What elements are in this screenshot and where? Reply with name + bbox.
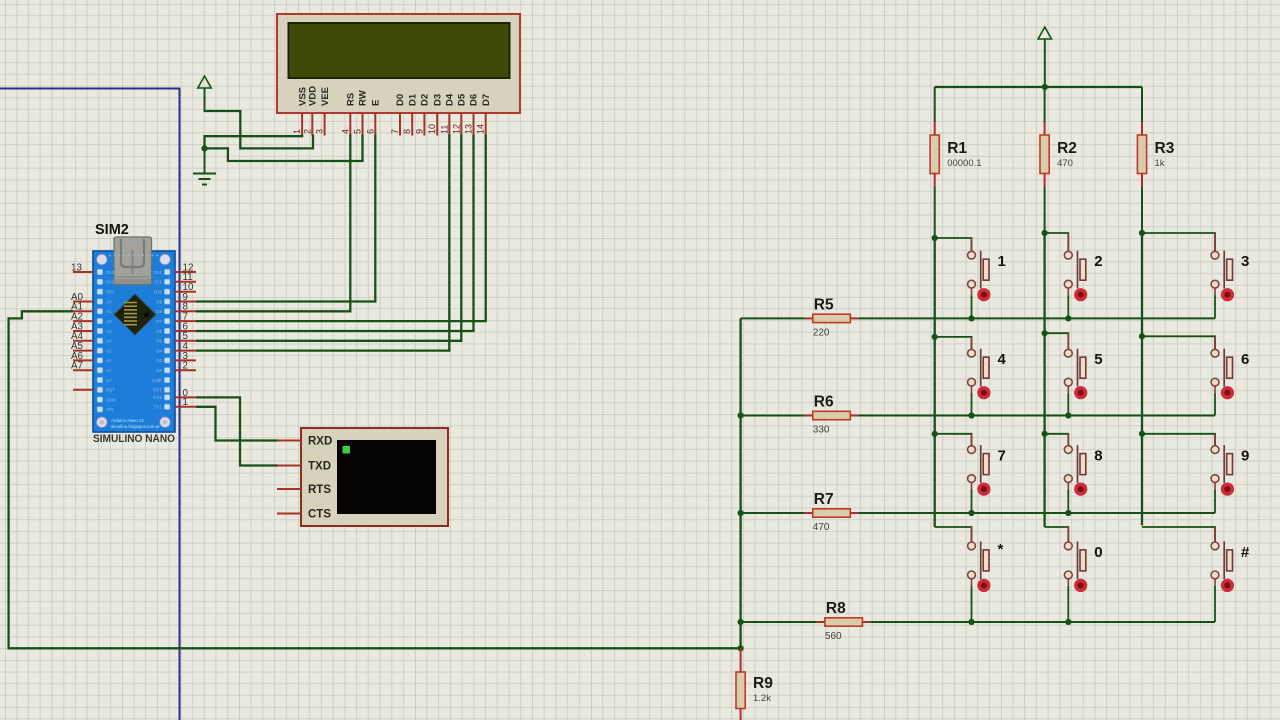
- Arduino left pin A1 stub: [73, 310, 93, 312]
- button actuator star 4: [977, 386, 990, 399]
- svg-text:13: 13: [464, 124, 474, 134]
- push button 4: [968, 337, 989, 393]
- wire column tap to button *: [935, 527, 972, 542]
- svg-text:1: 1: [183, 397, 188, 408]
- pin pads right column: [164, 269, 169, 409]
- junction column 1 row 2: [932, 334, 938, 340]
- LCD pin 3 stub: [324, 113, 326, 136]
- junction column 2 row 2: [1042, 330, 1048, 336]
- wire R7 to row rail: [858, 512, 1215, 514]
- wire LCD D5 to Arduino D5: [196, 135, 461, 341]
- Arduino left pin A2 stub: [73, 320, 93, 322]
- svg-text:D2: D2: [156, 368, 162, 373]
- inner silkscreen labels right: [152, 270, 163, 410]
- wire column tap to button 6: [1142, 336, 1215, 349]
- push button 3: [1211, 233, 1232, 295]
- svg-text:D4: D4: [445, 93, 456, 106]
- junction column 3 row 3: [1139, 431, 1145, 437]
- svg-text:0: 0: [1094, 544, 1102, 561]
- svg-text:GND: GND: [106, 397, 117, 402]
- svg-text:D5: D5: [156, 339, 162, 344]
- junction row 1 col 2: [1065, 315, 1071, 321]
- svg-text:R2: R2: [1057, 140, 1077, 157]
- svg-text:7: 7: [998, 448, 1006, 465]
- wire ladder bus to R6: [741, 415, 805, 417]
- push button 6: [1211, 336, 1232, 393]
- Arduino left pin 13 stub: [73, 271, 93, 273]
- junction ground node: [201, 145, 207, 151]
- svg-text:VEE: VEE: [320, 87, 331, 106]
- svg-text:TXD: TXD: [308, 461, 331, 473]
- junction bus R7: [738, 510, 744, 516]
- wire Arduino A1 to ladder bottom rail: [9, 311, 741, 648]
- button actuator star 9: [1221, 483, 1234, 496]
- LCD pin 1 stub: [301, 113, 303, 136]
- LCD pin 4 stub: [349, 113, 351, 136]
- svg-text:4: 4: [998, 351, 1007, 368]
- wire button 6 to row rail: [1214, 393, 1216, 415]
- svg-text:A7: A7: [71, 361, 83, 372]
- mounting hole: [97, 254, 108, 265]
- svg-text:3: 3: [1241, 253, 1249, 270]
- push button 2: [1064, 233, 1085, 295]
- wire LCD RS to Arduino D8: [196, 135, 350, 312]
- push button 0: [1064, 527, 1085, 586]
- Arduino right pin 3 stub: [175, 359, 196, 361]
- svg-text:D9: D9: [156, 299, 162, 304]
- LCD pin 9 stub: [423, 113, 425, 136]
- LCD pin 12 stub: [460, 113, 462, 136]
- push button 9: [1211, 434, 1232, 490]
- Arduino left pin A5 stub: [73, 350, 93, 352]
- wire button 7 to row rail: [971, 490, 973, 513]
- svg-text:8: 8: [1094, 448, 1102, 465]
- svg-text:D12: D12: [154, 270, 163, 275]
- Arduino right pin 9 stub: [175, 301, 196, 303]
- svg-text:D13: D13: [106, 270, 115, 275]
- svg-text:2: 2: [1094, 253, 1102, 270]
- svg-text:1: 1: [292, 129, 302, 134]
- wire column tap to button 1: [935, 238, 972, 251]
- svg-text:R3: R3: [1155, 140, 1175, 157]
- Arduino Nano board: [93, 237, 175, 432]
- svg-text:D4: D4: [156, 348, 162, 353]
- svg-text:RST: RST: [153, 388, 162, 393]
- wire column tap to button 2: [1045, 233, 1069, 251]
- board silkscreen text: [111, 418, 160, 429]
- wire button 3 to row rail: [1214, 295, 1216, 318]
- svg-text:11: 11: [439, 125, 449, 134]
- push button #: [1211, 527, 1232, 586]
- LCD module LCD1 body: [277, 14, 520, 113]
- svg-text:A4: A4: [106, 339, 112, 344]
- resistor R6: [805, 411, 859, 419]
- svg-text:220: 220: [813, 327, 830, 338]
- wire button 0 to row rail: [1067, 586, 1069, 622]
- svg-text:TX1: TX1: [154, 405, 163, 410]
- push button 7: [968, 434, 989, 490]
- Arduino right pin 2 stub: [175, 369, 196, 371]
- junction row 2 col 1: [968, 412, 974, 418]
- LCD pin 2 stub: [311, 113, 313, 136]
- button actuator star 7: [977, 483, 990, 496]
- svg-text:D3: D3: [432, 94, 443, 106]
- wire column tap to button 8: [1045, 434, 1069, 446]
- svg-text:RX0: RX0: [153, 395, 162, 400]
- wire column tap to button 5: [1045, 333, 1069, 349]
- svg-text:3V3: 3V3: [106, 280, 115, 285]
- Arduino left pin A0 stub: [73, 301, 93, 303]
- button actuator star #: [1221, 579, 1234, 592]
- mounting hole: [97, 417, 108, 428]
- svg-text:9: 9: [1241, 448, 1249, 465]
- wire column tap to button 4: [935, 337, 972, 350]
- svg-text:D3: D3: [156, 358, 162, 363]
- Arduino right pin 10 stub: [175, 291, 196, 293]
- Arduino right pin 12 stub: [175, 271, 196, 273]
- wire column 2 bus: [1043, 233, 1045, 527]
- junction bus bottom: [738, 645, 744, 651]
- svg-text:simulino.blogspot.com.ar: simulino.blogspot.com.ar: [111, 424, 160, 429]
- LCD pin 6 stub: [374, 113, 376, 136]
- power symbol +5V (keypad): [1038, 27, 1051, 87]
- svg-text:RTS: RTS: [308, 484, 331, 496]
- wire column 3 bus: [1141, 233, 1143, 525]
- svg-text:D10: D10: [154, 290, 163, 295]
- svg-text:00000.1: 00000.1: [947, 158, 981, 169]
- wire ladder bus to R8: [741, 621, 817, 623]
- button actuator star 8: [1074, 483, 1087, 496]
- terminal pin TXD: [277, 465, 301, 467]
- pin pads left column: [97, 269, 102, 412]
- LCD pin 5 stub: [362, 113, 364, 136]
- junction row 3 col 1: [968, 510, 974, 516]
- wire column tap to button 0: [1045, 527, 1069, 542]
- junction bus R8: [738, 619, 744, 625]
- wire LCD RW to ground: [206, 135, 363, 162]
- wire ladder bus to R5: [741, 317, 805, 319]
- terminal pin RTS: [277, 488, 301, 490]
- sheet border: [0, 89, 180, 720]
- junction power rail: [1042, 84, 1048, 90]
- wire button 9 to row rail: [1214, 490, 1216, 513]
- wire R8 to row rail: [870, 621, 1215, 623]
- svg-text:REF: REF: [106, 290, 115, 295]
- svg-text:1: 1: [998, 253, 1006, 270]
- push button 8: [1064, 434, 1085, 490]
- svg-text:D6: D6: [156, 329, 162, 334]
- svg-text:R5: R5: [814, 296, 834, 313]
- wire column 1 bus: [934, 238, 936, 527]
- wire Arduino pin1 to RXD: [196, 407, 278, 441]
- Arduino right pin 6 stub: [175, 330, 196, 332]
- inner silkscreen labels left: [106, 270, 117, 412]
- silkscreen dots: [109, 255, 158, 257]
- wire R6 to row rail: [858, 415, 1215, 417]
- Arduino right pin 1 stub: [175, 406, 196, 408]
- svg-text:VDD: VDD: [308, 86, 319, 106]
- terminal pin CTS: [277, 513, 301, 515]
- svg-text:D1: D1: [407, 93, 418, 106]
- junction row 2 col 2: [1065, 412, 1071, 418]
- svg-text:R7: R7: [814, 491, 834, 508]
- svg-text:R8: R8: [826, 600, 846, 617]
- svg-text:CTS: CTS: [308, 509, 331, 521]
- svg-text:A3: A3: [106, 329, 112, 334]
- Arduino left pin A4 stub: [73, 340, 93, 342]
- virtual terminal body: [301, 428, 448, 526]
- wire button # to row rail: [1214, 586, 1216, 622]
- svg-text:R9: R9: [753, 675, 773, 692]
- microcontroller chip U1: [115, 294, 156, 334]
- wire column tap to button 3: [1142, 233, 1215, 251]
- wire ladder bus vertical: [739, 318, 741, 648]
- resistor R8: [817, 618, 871, 626]
- svg-text:12: 12: [451, 124, 461, 134]
- Arduino left pin A7 stub: [73, 369, 93, 371]
- svg-text:6: 6: [365, 129, 375, 134]
- svg-text:GND: GND: [152, 378, 163, 383]
- push button *: [968, 527, 989, 586]
- LCD pin 13 stub: [473, 113, 475, 136]
- Arduino right pin 5 stub: [175, 340, 196, 342]
- junction row 1 col 1: [968, 315, 974, 321]
- wire Arduino pin0 to TXD: [196, 397, 278, 465]
- wire button 5 to row rail: [1067, 393, 1069, 415]
- wire button 4 to row rail: [971, 393, 973, 415]
- svg-text:D7: D7: [156, 319, 162, 324]
- resistor R1: [930, 87, 939, 238]
- ground symbol: [193, 148, 216, 184]
- svg-text:7: 7: [390, 129, 400, 134]
- svg-text:R1: R1: [947, 140, 967, 157]
- button actuator star 0: [1074, 579, 1087, 592]
- svg-text:RS: RS: [346, 93, 357, 106]
- Arduino right pin 7 stub: [175, 320, 196, 322]
- button actuator star *: [977, 579, 990, 592]
- svg-text:*: *: [998, 541, 1004, 558]
- wire LCD D6 to Arduino D6: [196, 135, 474, 332]
- resistor R3: [1137, 87, 1146, 233]
- svg-text:A7: A7: [106, 368, 112, 373]
- junction column 1 row 1: [932, 235, 938, 241]
- Arduino right pin 4 stub: [175, 350, 196, 352]
- svg-text:5: 5: [1094, 351, 1102, 368]
- LCD pin 11 stub: [448, 113, 450, 136]
- svg-text:1.2k: 1.2k: [753, 693, 771, 704]
- svg-text:560: 560: [825, 631, 842, 642]
- junction bus R6: [738, 412, 744, 418]
- wire button 1 to row rail: [971, 295, 973, 318]
- junction column 1 row 3: [932, 431, 938, 437]
- svg-text:D0: D0: [395, 94, 406, 106]
- svg-text:13: 13: [71, 262, 82, 273]
- svg-text:6: 6: [1241, 351, 1249, 368]
- wire column tap to button 9: [1142, 434, 1215, 446]
- wire column tap to button 7: [935, 434, 972, 446]
- svg-text:3: 3: [315, 129, 325, 134]
- push button 5: [1064, 333, 1085, 393]
- svg-text:R6: R6: [814, 394, 834, 411]
- wire LCD VSS to ground: [205, 135, 303, 149]
- wire button 8 to row rail: [1067, 490, 1069, 513]
- button actuator star 5: [1074, 386, 1087, 399]
- LCD pin 14 stub: [485, 113, 487, 136]
- svg-text:Arduino Nano v3: Arduino Nano v3: [111, 418, 144, 423]
- svg-text:SIM2: SIM2: [95, 222, 129, 238]
- wire LCD D4 to Arduino D4: [196, 135, 449, 351]
- wire ladder bus to R7: [741, 512, 805, 514]
- wire R5 to row rail: [858, 317, 1215, 319]
- junction column 3 row 1: [1139, 230, 1145, 236]
- Arduino left pin A3 stub: [73, 330, 93, 332]
- svg-text:A6: A6: [106, 358, 112, 363]
- svg-text:A5: A5: [106, 348, 112, 353]
- junction row 4 col 1: [968, 619, 974, 625]
- terminal pin RXD: [277, 440, 301, 442]
- resistor R5: [805, 314, 859, 322]
- Arduino right pin 0 stub: [175, 396, 196, 398]
- svg-text:A0: A0: [106, 299, 112, 304]
- svg-text:14: 14: [476, 124, 486, 134]
- wire LCD E to Arduino D9: [196, 135, 375, 302]
- svg-text:D6: D6: [469, 94, 480, 106]
- svg-text:10: 10: [427, 124, 437, 134]
- svg-text:D7: D7: [481, 94, 492, 106]
- power symbol +5V (LCD): [198, 76, 211, 112]
- LCD pin 7 stub: [399, 113, 401, 136]
- mounting hole: [160, 417, 171, 428]
- svg-text:RXD: RXD: [308, 436, 332, 448]
- wire button 2 to row rail: [1067, 295, 1069, 318]
- junction column 2 row 3: [1042, 431, 1048, 437]
- wire LCD D7 to Arduino D7: [196, 135, 486, 322]
- svg-text:RW: RW: [358, 90, 369, 106]
- LCD pin 10 stub: [436, 113, 438, 136]
- svg-text:8: 8: [402, 129, 412, 134]
- wire +5V to LCD VDD: [205, 111, 314, 148]
- Arduino right pin 11 stub: [175, 281, 196, 283]
- button actuator star 1: [977, 288, 990, 301]
- junction row 3 col 2: [1065, 510, 1071, 516]
- svg-text:SIMULINO NANO: SIMULINO NANO: [93, 433, 175, 445]
- svg-text:RST: RST: [106, 388, 115, 393]
- wire button * to row rail: [971, 586, 973, 622]
- svg-text:9: 9: [414, 129, 424, 134]
- junction column 3 row 2: [1139, 333, 1145, 339]
- svg-text:1k: 1k: [1155, 158, 1165, 169]
- mounting hole: [160, 254, 171, 265]
- button actuator star 3: [1221, 288, 1234, 301]
- svg-text:D2: D2: [420, 94, 431, 106]
- svg-text:#: #: [1241, 544, 1250, 561]
- wire column tap to button #: [1142, 527, 1215, 542]
- svg-text:D11: D11: [154, 280, 162, 285]
- Arduino left pin RST stub: [73, 389, 93, 391]
- svg-text:VIN: VIN: [106, 407, 114, 412]
- button actuator star 2: [1074, 288, 1087, 301]
- Arduino right pin 8 stub: [175, 310, 196, 312]
- svg-text:470: 470: [813, 522, 830, 533]
- svg-text:A1: A1: [106, 309, 112, 314]
- Arduino left pin A6 stub: [73, 359, 93, 361]
- push button 1: [968, 238, 989, 295]
- svg-text:470: 470: [1057, 158, 1073, 169]
- junction row 4 col 2: [1065, 619, 1071, 625]
- svg-text:5V: 5V: [106, 378, 112, 383]
- svg-text:5: 5: [353, 129, 363, 134]
- resistor R9: [736, 648, 745, 720]
- svg-text:D8: D8: [156, 309, 162, 314]
- LCD pin 8 stub: [411, 113, 413, 136]
- svg-text:2: 2: [302, 129, 312, 134]
- resistor R7: [805, 509, 859, 517]
- svg-text:2: 2: [183, 361, 188, 372]
- resistor R2: [1040, 87, 1049, 233]
- svg-text:D5: D5: [457, 93, 468, 106]
- svg-text:4: 4: [340, 129, 350, 134]
- svg-text:A2: A2: [106, 319, 112, 324]
- junction column 2 row 1: [1042, 230, 1048, 236]
- svg-text:330: 330: [813, 425, 830, 436]
- wire top power rail: [935, 86, 1142, 88]
- button actuator star 6: [1221, 386, 1234, 399]
- svg-text:E: E: [371, 100, 382, 106]
